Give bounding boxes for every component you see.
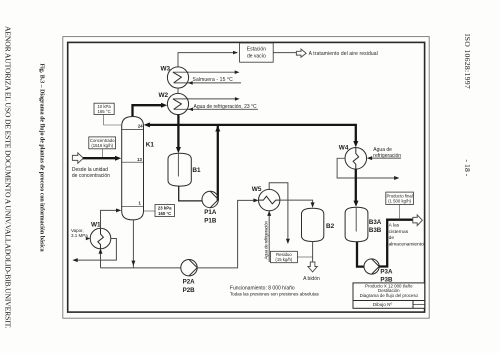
arrowhead up into W1 bottom: [99, 248, 103, 253]
wire thick reflux header K1 to W4 drop: [147, 125, 356, 142]
pump P1: [202, 191, 218, 207]
arrowhead downcomer: [131, 261, 135, 266]
svg-text:de concentración: de concentración: [72, 173, 110, 179]
inner border frame: [68, 42, 425, 312]
arrowhead cooling in at W2: [188, 108, 193, 112]
svg-text:(1 500 kg/h): (1 500 kg/h): [388, 199, 411, 204]
wire leader 10kPa box to K1: [104, 115, 122, 126]
arrowhead down into W4: [353, 141, 358, 147]
heat exchanger W4: [345, 148, 367, 170]
wire W5 outlet to B2: [280, 200, 313, 204]
wire B1 to P1 suction: [179, 186, 202, 201]
svg-text:A bidón: A bidón: [303, 276, 320, 282]
svg-text:- 18 -: - 18 -: [463, 160, 472, 177]
pump P2: [181, 260, 197, 276]
svg-text:Salmuera - 15 °C: Salmuera - 15 °C: [193, 77, 234, 83]
wire thick W2 bottom to B1: [177, 115, 179, 150]
hollow arrow A bidon: [308, 262, 317, 272]
box Concentrado: [89, 137, 116, 149]
arrowhead into B1: [176, 147, 181, 153]
svg-text:3.1 MPa: 3.1 MPa: [71, 233, 88, 238]
arrowhead into B3 top: [354, 201, 359, 207]
hollow arrow to air treatment: [296, 49, 306, 57]
outer border frame: [63, 37, 429, 319]
heat exchanger W5: [259, 189, 280, 210]
svg-text:165 °C: 165 °C: [98, 109, 111, 114]
wire thick W4 to B3: [355, 169, 357, 203]
pump P3: [364, 259, 379, 274]
internal pipe B3: [355, 208, 357, 232]
wire thick B3 to P3: [357, 242, 364, 267]
arrowhead brine in at W3: [188, 81, 193, 85]
svg-text:P2A: P2A: [183, 279, 196, 286]
wire thick P3 discharge product line: [379, 220, 412, 267]
arrowhead vapour into W2: [161, 103, 167, 108]
wire leader Producto box to line: [399, 205, 401, 220]
arrowhead vapor into W1: [86, 237, 90, 240]
svg-text:AENOR AUTORIZA EL USO DE ESTE: AENOR AUTORIZA EL USO DE ESTE DOCUMENTO …: [4, 26, 13, 329]
vessel B2: [302, 208, 324, 241]
wire W4 coolant in: [370, 157, 401, 159]
svg-text:(15 kg/h): (15 kg/h): [275, 257, 293, 262]
svg-text:W2: W2: [159, 92, 169, 99]
wire W1 top to K1 bottom: [101, 210, 118, 228]
svg-text:160 °C: 160 °C: [158, 211, 171, 216]
wire cooling water out W2 upper: [173, 98, 236, 100]
heat exchanger W1: [90, 228, 111, 249]
arrowhead condensate out left: [72, 258, 77, 262]
arrowhead cooling out right W2: [235, 97, 240, 101]
svg-text:B2: B2: [326, 223, 335, 230]
svg-text:W4: W4: [339, 144, 349, 151]
svg-text:cisternas: cisternas: [389, 229, 409, 235]
box 10 kPa 165C: [94, 103, 114, 114]
box Residuo: [271, 251, 298, 262]
arrowhead into K1 left: [116, 208, 121, 212]
svg-text:de: de: [389, 235, 395, 241]
wire leader Concentrado box to feed line: [102, 149, 104, 158]
arrowhead into B2 top: [311, 202, 315, 207]
vessel B1: [168, 153, 191, 186]
heat exchanger W2: [167, 93, 188, 114]
svg-text:W5: W5: [252, 186, 262, 193]
svg-text:K1: K1: [146, 142, 155, 149]
internal pipe B1: [177, 154, 179, 177]
wire Estacion box to outlet arrow: [273, 52, 296, 54]
svg-text:almacenamiento: almacenamiento: [389, 242, 424, 248]
wire B2 bottom to bidon: [312, 242, 314, 263]
svg-text:P1A: P1A: [204, 209, 217, 216]
wire cooling water in W2 lower: [174, 108, 258, 110]
wire vapor feed into W1: [87, 238, 89, 240]
arrowhead up into W5 bottom: [267, 211, 271, 216]
wire thick feed line into K1: [83, 157, 118, 159]
wire vacuum line W3 top to Estacion de vacio: [178, 53, 237, 67]
hollow arrow feed input: [72, 153, 83, 163]
arrowhead riser up into header: [215, 125, 220, 131]
wire W1 bottom connector: [100, 250, 102, 268]
wire W5 top loop to residuo arrow: [269, 183, 288, 241]
wire K1 bottoms downcomer: [132, 220, 134, 268]
svg-text:Funcionamiento: 8 000 h/año: Funcionamiento: 8 000 h/año: [230, 285, 295, 291]
svg-text:P1B: P1B: [204, 218, 217, 225]
hollow arrow product out: [413, 215, 423, 226]
svg-text:Diagrama de flujo del proceso: Diagrama de flujo del proceso: [360, 293, 419, 298]
svg-text:Agua de refrigeración: Agua de refrigeración: [264, 221, 269, 260]
arrowhead into W5 left: [253, 198, 258, 202]
arrowhead loop down: [286, 239, 290, 244]
wire thick K1 top vapour to W2: [133, 105, 164, 116]
wire brine out W3 upper: [173, 71, 236, 73]
arrowhead feed into K1: [115, 156, 121, 161]
wire bottoms header to P2: [101, 267, 182, 269]
wire W4 coolant loop out: [337, 158, 396, 178]
wire leader K1 to 23kPa box: [144, 210, 156, 212]
wire P2 discharge to W5: [197, 200, 255, 268]
box Estacion de vacio: [240, 43, 274, 62]
svg-text:Agua de refrigeración, 23 °C: Agua de refrigeración, 23 °C: [194, 104, 258, 110]
svg-text:B3B: B3B: [369, 227, 382, 234]
box Producto final: [386, 192, 414, 204]
svg-text:Estación: Estación: [247, 47, 266, 53]
wire W1 right loop condensate: [74, 239, 116, 261]
wire brine in W3 lower: [174, 82, 241, 84]
svg-text:ISO 10628:1997: ISO 10628:1997: [463, 34, 472, 89]
svg-text:Todas las presiones son presio: Todas las presiones son presiones absolu…: [230, 292, 320, 297]
wire W5 cooling riser: [268, 212, 270, 263]
wire thick P1 riser: [217, 126, 219, 201]
svg-text:(1516 kg/h): (1516 kg/h): [91, 143, 113, 148]
arrowhead coolant into W4: [367, 156, 372, 160]
arrowhead into Estacion box: [233, 51, 238, 55]
vessel B3: [345, 207, 368, 241]
svg-text:B1: B1: [192, 167, 201, 174]
arrowhead coolant out right: [394, 176, 399, 180]
svg-text:A tratamiento del aire residua: A tratamiento del aire residual: [309, 51, 378, 57]
column K1: [122, 117, 144, 220]
svg-text:1: 1: [139, 201, 142, 206]
svg-text:24: 24: [138, 124, 143, 129]
svg-text:Dibujo Nº: Dibujo Nº: [373, 302, 393, 307]
svg-text:W3: W3: [161, 66, 171, 73]
svg-text:de vacío: de vacío: [247, 54, 266, 60]
svg-text:Fig. B.3 – Diagrama de flujo d: Fig. B.3 – Diagrama de flujo de plantas …: [39, 64, 45, 252]
svg-text:W1: W1: [91, 222, 101, 229]
svg-text:13: 13: [137, 157, 142, 162]
box 23 kPa 160C: [155, 205, 175, 217]
wire W3-W2 connector: [177, 88, 179, 94]
svg-text:B3A: B3A: [369, 219, 382, 226]
svg-text:A las: A las: [389, 223, 400, 229]
svg-text:P3A: P3A: [380, 268, 393, 275]
heat exchanger W3: [167, 67, 188, 88]
svg-text:P2B: P2B: [183, 287, 196, 294]
arrowhead reflux into K1: [144, 122, 150, 127]
title block: [353, 283, 425, 308]
arrowhead brine out right: [235, 70, 240, 74]
wire leader Residuo box to line: [297, 256, 312, 258]
